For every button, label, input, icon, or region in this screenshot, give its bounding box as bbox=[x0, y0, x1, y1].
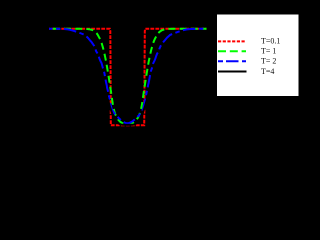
curve T=0.1 (red short dashes) bbox=[49, 29, 207, 125]
legend sample T=4 (black solid) bbox=[218, 71, 247, 73]
curve T=2 (blue dash-dot) bbox=[49, 29, 207, 124]
curve T=4 (black solid, drawn on top, mostly invisible on background) bbox=[49, 39, 206, 125]
legend sample T=1 (green dashed) bbox=[218, 50, 246, 52]
legend sample T=0.1 (red dashed) bbox=[218, 40, 246, 42]
legend box bbox=[217, 15, 299, 97]
figure: temperature-dependent dip curves plot bbox=[0, 0, 305, 171]
legend sample T=2 (blue dash-dot) bbox=[218, 60, 246, 62]
svg-text:T=4: T=4 bbox=[261, 67, 274, 76]
curve T=1 (green dashes) bbox=[49, 29, 207, 125]
svg-text:T= 1: T= 1 bbox=[261, 47, 276, 56]
svg-text:T=0.1: T=0.1 bbox=[261, 37, 280, 46]
svg-text:T= 2: T= 2 bbox=[261, 57, 276, 66]
